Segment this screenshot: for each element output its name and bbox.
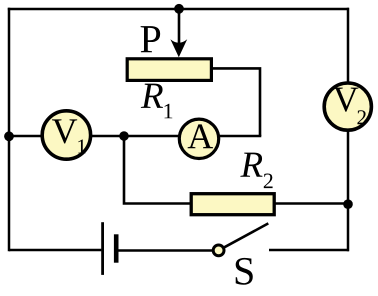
wiper arrow stem P	[178, 9, 181, 50]
wire V1 to A	[89, 135, 180, 138]
wire right upper	[347, 8, 350, 84]
battery short plate	[114, 234, 119, 262]
node center junction	[119, 131, 129, 141]
label R1 subscript	[165, 104, 173, 119]
battery long plate	[101, 222, 104, 275]
wire battery to switch	[118, 249, 214, 252]
wire top	[8, 8, 349, 11]
switch S pivot	[213, 245, 224, 256]
node top junction	[174, 4, 184, 14]
label V2	[333, 88, 358, 112]
voltmeter V2	[324, 83, 371, 130]
label V2 subscript	[357, 110, 365, 124]
wire A to corner	[218, 135, 261, 138]
label V1 subscript	[78, 139, 85, 153]
label R1	[141, 84, 163, 108]
wire R1 right	[212, 68, 260, 136]
label P	[141, 26, 160, 52]
wire R2 right to border	[275, 202, 349, 205]
wire left	[8, 8, 11, 251]
wire bottom-right to switch	[269, 249, 349, 252]
label R2 subscript	[264, 174, 273, 189]
rheostat R1	[127, 59, 211, 81]
node left junction	[4, 131, 14, 141]
switch S blade	[224, 223, 268, 247]
wire junction down to R2	[124, 136, 193, 204]
label A	[188, 124, 213, 148]
resistor R2	[191, 194, 274, 215]
wiper arrowhead	[170, 39, 187, 57]
label V1	[52, 119, 77, 143]
ammeter A	[179, 119, 218, 158]
label S	[236, 258, 253, 285]
node right junction	[343, 199, 353, 209]
label R2	[240, 153, 262, 177]
wire left border to V1	[9, 135, 45, 138]
voltmeter V1	[42, 111, 90, 159]
wire right lower	[347, 130, 350, 251]
wire bottom-left to battery	[9, 249, 101, 252]
